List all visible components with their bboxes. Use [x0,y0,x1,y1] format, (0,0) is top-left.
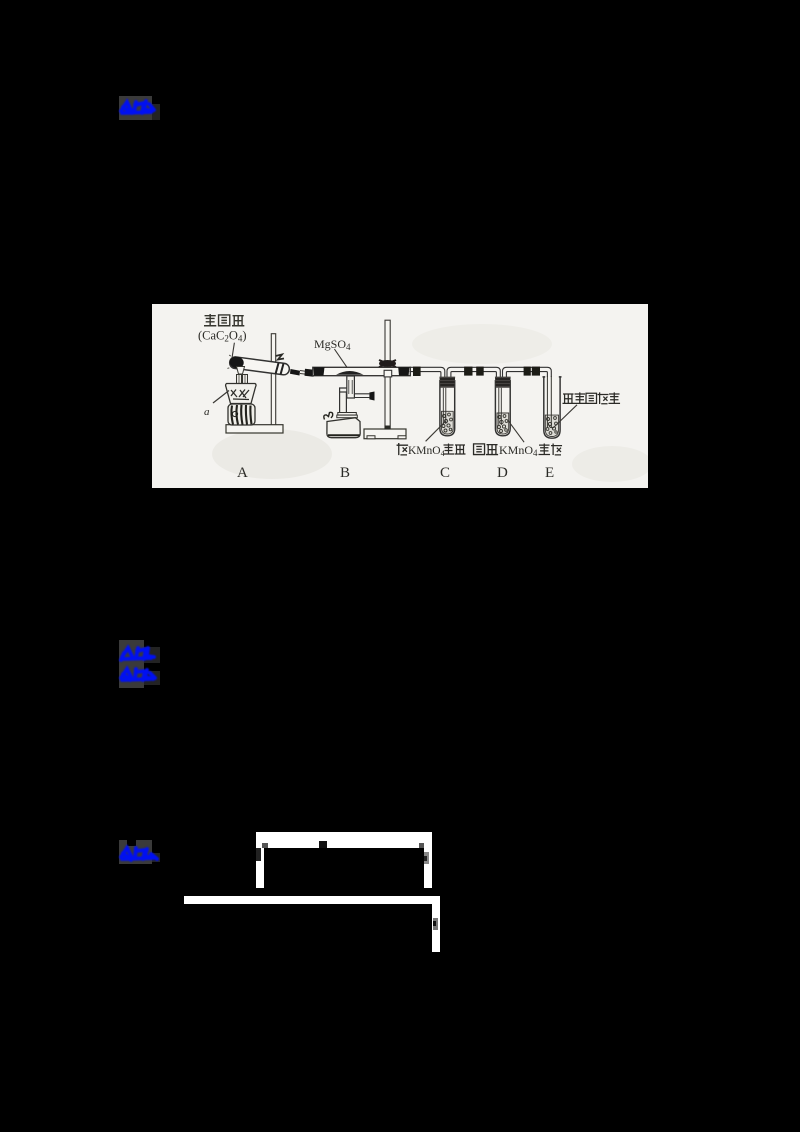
svg-text:A: A [237,465,248,481]
svg-text:D: D [497,465,508,481]
svg-text:MgSO4: MgSO4 [314,337,351,352]
svg-text:KMnO4: KMnO4 [408,445,446,458]
svg-text:B: B [340,465,350,481]
svg-text:a: a [204,406,210,418]
svg-text:C: C [440,465,450,481]
svg-text:KMnO4: KMnO4 [499,443,538,458]
svg-text:E: E [545,465,554,481]
